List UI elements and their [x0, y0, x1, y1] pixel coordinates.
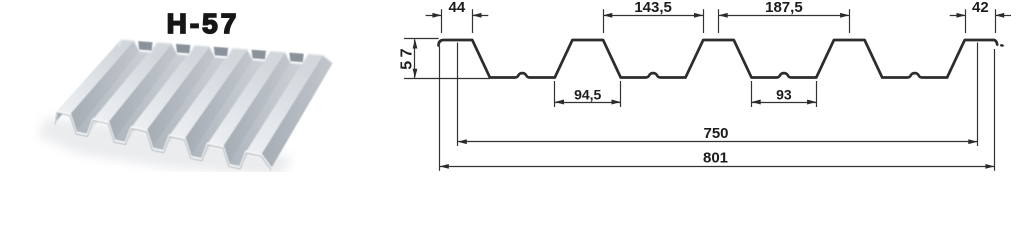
- svg-text:187,5: 187,5: [765, 0, 803, 16]
- dimension 44: dimension line with outside arrows: [426, 13, 489, 18]
- far cut edge notch (mm 352.0-394.0): [214, 47, 229, 57]
- sheet valley floor (mm 352.0-394.0): [152, 57, 226, 151]
- svg-text:750: 750: [703, 125, 728, 142]
- sheet rib top face (mm 557.0-612.0): [208, 51, 285, 146]
- dimension 94,5 (rib bottom width): extension lines: [555, 81, 621, 107]
- sheet rib left flank (mm 535.0-557.0): [202, 51, 270, 159]
- dimension 801: dimension line with arrows: [440, 164, 995, 169]
- far cut edge notch (mm 634.0-676.0): [289, 53, 304, 63]
- dimension 750 (working width): extension lines: [458, 43, 978, 147]
- sheet far cut edge highlight: [119, 40, 333, 64]
- svg-text:Н-57: Н-57: [167, 8, 240, 39]
- sheet rib left flank (mm 253.0-275.0): [126, 45, 195, 143]
- sheet front cut edge: [55, 111, 271, 168]
- sheet rib right flank (mm 612.0-634.0): [223, 52, 291, 165]
- far cut edge notch (mm 70.0-112.0): [138, 41, 152, 50]
- sheet rib right flank (mm 189.0-211.0): [108, 44, 177, 141]
- sheet left edge lip face (mm -7.0-0.0): [55, 40, 121, 123]
- dimension 187,5: dimension line with arrows: [719, 13, 850, 18]
- svg-text:57: 57: [399, 45, 416, 70]
- dimension 42: dimension line with outside arrows: [950, 13, 1011, 18]
- sheet right edge lip face (mm 753.0-790.0): [261, 55, 333, 168]
- dimension 143,5: dimension line with arrows: [603, 13, 703, 18]
- dimension 143,5 (gap between rib tops): extension lines: [604, 9, 704, 33]
- profile outline of H-57 cross-section: [439, 40, 998, 78]
- dimension 187,5 (rib pitch): extension lines: [719, 9, 850, 33]
- dimension 94,5: dimension line with arrows: [555, 100, 621, 105]
- far cut edge notch (mm 211.0-253.0): [176, 44, 191, 54]
- dimension 57 (profile height): extension lines: [404, 39, 490, 79]
- sheet rib top face (mm 698.0-753.0): [246, 54, 323, 155]
- sheet rib right flank (mm 471.0-493.0): [185, 49, 254, 156]
- svg-text:801: 801: [703, 150, 728, 167]
- sheet rib top face (mm 275.0-330.0): [132, 45, 210, 130]
- svg-text:94,5: 94,5: [574, 86, 601, 102]
- sheet rib left flank (mm 112.0-134.0): [87, 43, 156, 135]
- dimension 801 (overall width): extension lines: [440, 46, 995, 171]
- sheet valley floor (mm 70.0-112.0): [76, 51, 151, 134]
- svg-text:143,5: 143,5: [634, 0, 672, 16]
- sheet rib top face (mm 134.0-189.0): [93, 43, 171, 123]
- sheet valley floor (mm 634.0-676.0): [229, 63, 302, 167]
- sheet valley floor (mm 493.0-535.0): [191, 60, 265, 159]
- ground shadow under sheet: [38, 118, 292, 176]
- dimension 93 (valley width): extension lines: [752, 81, 817, 107]
- dimension 44 (rib1 top width): extension lines: [442, 9, 473, 33]
- dimension 93: dimension line with arrows: [752, 100, 817, 105]
- svg-text:44: 44: [449, 0, 466, 16]
- dimension 750: dimension line with arrows: [458, 139, 978, 144]
- sheet rib right flank (mm 48.0-70.0): [70, 41, 140, 133]
- sheet rib top face (mm 0.0-48.0): [57, 40, 134, 115]
- sheet rib left flank (mm 676.0-698.0): [240, 54, 308, 167]
- sheet valley floor (mm 211.0-253.0): [114, 54, 189, 143]
- profile right overlap dash: [1001, 44, 1002, 47]
- far cut edge notch (mm 493.0-535.0): [252, 50, 267, 60]
- svg-text:93: 93: [776, 86, 792, 102]
- sheet rib right flank (mm 330.0-352.0): [146, 47, 215, 149]
- sheet rib top face (mm 416.0-471.0): [170, 48, 248, 138]
- svg-text:42: 42: [972, 0, 989, 16]
- dimension 42 (rib5 top width): extension lines: [966, 9, 996, 33]
- dimension 57: dimension line with arrows: [413, 39, 418, 78]
- sheet rib left flank (mm 394.0-416.0): [164, 48, 233, 151]
